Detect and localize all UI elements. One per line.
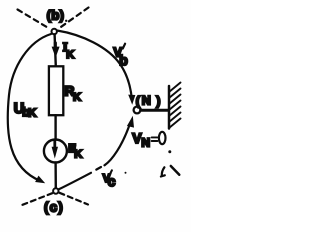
svg-text:N: N [142,93,151,107]
node b [52,29,57,34]
svg-text:K: K [28,108,37,120]
voltage arrow UbK from b to c (left arc) [8,34,51,181]
dashed branch down-right from node c [60,193,89,205]
speck below 0 [168,150,171,153]
resistor RK [49,66,63,115]
svg-text:K: K [66,49,74,61]
svg-text:): ) [156,94,160,108]
dashed branch up-left from node b [18,10,51,30]
wire from EK to node c [54,163,57,189]
ground wall [168,86,171,129]
potential arrow VN from c to N [59,173,91,190]
dashed branch up-right from node b [58,8,89,30]
speck right of V'c [125,172,127,174]
source EK [44,140,67,163]
svg-text:K: K [73,91,81,103]
potential arrow V'b from b to N [57,31,132,99]
wire from b to resistor RK [55,34,56,66]
node N [134,107,141,114]
wire from RK to source EK [54,115,56,139]
svg-text:K: K [74,148,82,160]
speck after (b) [65,20,67,22]
svg-text:c: c [108,173,116,189]
svg-text:b: b [119,52,128,68]
svg-text:(b): (b) [47,8,65,23]
node c [53,188,58,193]
svg-text:N: N [141,135,150,149]
dashed branch down-left from node c [23,193,53,205]
stray mark l (cropped text at right edge) [161,167,165,176]
stray mark dash (cropped line at right edge) [171,166,180,175]
wire from N to ground wall [141,109,169,112]
svg-text:(: ( [136,94,141,108]
svg-text:(c): (c) [44,199,64,214]
current arrow IK [54,43,57,49]
